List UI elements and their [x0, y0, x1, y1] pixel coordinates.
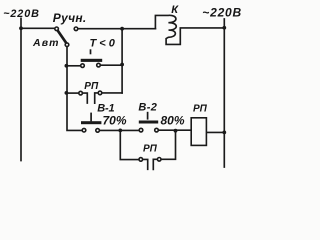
- svg-text:~220В: ~220В: [202, 5, 242, 19]
- svg-text:Авт: Авт: [32, 37, 60, 49]
- svg-text:К: К: [171, 4, 179, 16]
- svg-text:80%: 80%: [161, 114, 185, 128]
- svg-text:РП: РП: [193, 104, 208, 115]
- svg-text:~220В: ~220В: [3, 8, 40, 20]
- svg-text:В-2: В-2: [138, 102, 157, 114]
- svg-text:Ручн.: Ручн.: [53, 11, 87, 25]
- svg-text:В-1: В-1: [97, 102, 114, 114]
- svg-text:РП: РП: [84, 81, 99, 92]
- svg-text:70%: 70%: [103, 114, 127, 128]
- svg-text:РП: РП: [143, 143, 158, 154]
- svg-text:Т < 0: Т < 0: [90, 37, 116, 49]
